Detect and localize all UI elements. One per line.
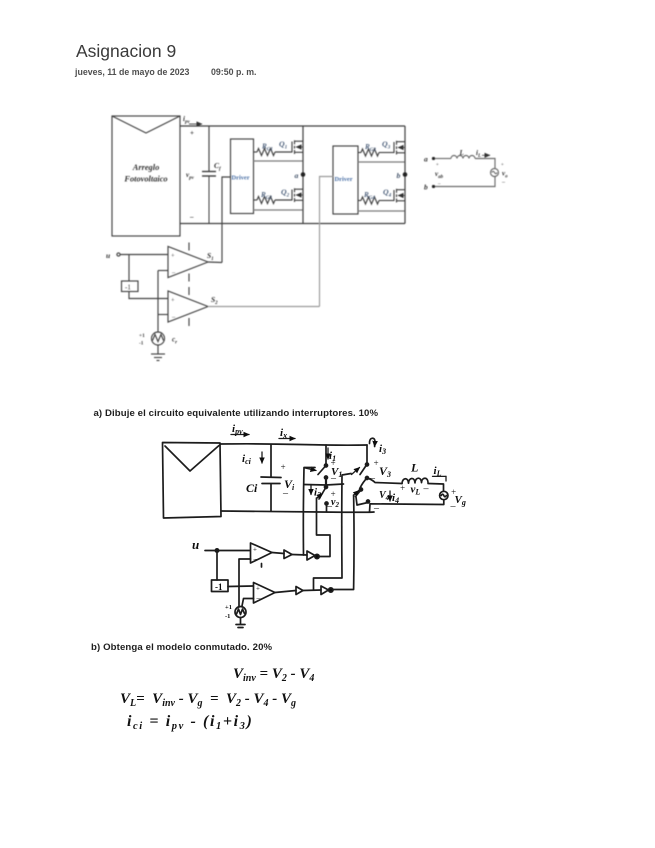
- carrier source (hand): [235, 607, 246, 618]
- node a (right mini circuit): [424, 155, 435, 164]
- svg-text:Fotovoltaico: Fotovoltaico: [123, 175, 167, 184]
- wire u to inverter: [128, 255, 130, 282]
- Vi label (hand): [280, 462, 295, 499]
- capacitor Cf: [202, 172, 216, 224]
- svg-text:Vinv = V2 - V4: Vinv = V2 - V4: [233, 666, 314, 684]
- transistor Q4: [383, 188, 405, 203]
- Vg label (hand): [450, 487, 466, 512]
- switch S1 leg (hand): [305, 445, 328, 479]
- svg-text:Vg: Vg: [455, 494, 466, 507]
- op-amp comparator A2: [168, 287, 208, 326]
- svg-text:+: +: [400, 483, 406, 493]
- capacitor Ci (hand): [246, 445, 281, 512]
- i1 label (hand): [329, 450, 342, 484]
- top rail: [180, 125, 405, 127]
- source vo: [491, 163, 509, 186]
- wire driver2-Q4 source return: [358, 210, 405, 212]
- svg-text:–: –: [326, 501, 333, 512]
- wire S2 output: [208, 306, 320, 308]
- svg-text:cr: cr: [172, 336, 177, 346]
- V4 i4 label (hand): [373, 490, 399, 514]
- svg-text:ici: ici: [242, 453, 252, 466]
- input u terminal: [106, 251, 168, 260]
- inductor L (hand): [402, 461, 428, 484]
- wire S3 mid to inductor (hand): [367, 478, 402, 484]
- leg1 vertical wire: [302, 126, 304, 224]
- inductor L: [451, 149, 475, 159]
- switch S4 (hand): [354, 478, 370, 505]
- svg-text:+: +: [256, 585, 260, 593]
- svg-text:L: L: [459, 149, 464, 157]
- date line: [75, 67, 189, 77]
- svg-text:vL: vL: [411, 484, 421, 497]
- i_pv label + arrow: [183, 115, 202, 125]
- svg-text:Q4: Q4: [383, 188, 392, 199]
- carrier labels (hand): [225, 604, 232, 620]
- svg-text:Q2: Q2: [281, 188, 290, 199]
- bottom rail: [180, 223, 405, 225]
- svg-text:b: b: [397, 171, 401, 180]
- wire S1 output: [208, 261, 222, 264]
- svg-text:i4: i4: [392, 492, 399, 505]
- svg-text:Arreglo: Arreglo: [132, 163, 160, 172]
- vL label (hand): [400, 483, 430, 497]
- transistor Q1: [279, 140, 303, 155]
- svg-text:vab: vab: [435, 170, 444, 180]
- switch S3 leg (hand): [352, 445, 369, 480]
- wire inductor to source: [475, 159, 495, 169]
- svg-text:+: +: [280, 462, 286, 472]
- svg-text:-1: -1: [125, 284, 131, 292]
- i4 arrow (hand): [389, 491, 391, 501]
- wire buffer3 to inverter buffer4 (hand): [303, 589, 321, 592]
- svg-text:–: –: [501, 180, 506, 186]
- svg-text:RG2: RG2: [260, 191, 272, 201]
- PV label: [123, 163, 167, 184]
- v_pv labels: [186, 129, 195, 221]
- svg-text:–: –: [256, 594, 262, 603]
- svg-text:-1: -1: [139, 341, 144, 347]
- svg-text:i3: i3: [379, 443, 386, 456]
- wire S1-S2 (hand): [325, 478, 327, 487]
- ground (hand): [236, 618, 245, 628]
- control wire comp1 to S1 (hand): [303, 468, 315, 556]
- svg-text:V4: V4: [379, 490, 390, 502]
- leg2 vertical wire: [404, 126, 406, 224]
- wire source to b: [435, 177, 495, 187]
- wire -1 to comparator2: [129, 292, 168, 299]
- svg-text:a: a: [424, 155, 428, 164]
- svg-text:u: u: [106, 251, 110, 260]
- svg-text:Driver: Driver: [232, 175, 250, 182]
- svg-text:iL: iL: [476, 149, 481, 159]
- svg-text:Ci: Ci: [246, 481, 258, 495]
- wire driver1-Q1 source return: [254, 160, 304, 162]
- svg-text:-1: -1: [225, 613, 230, 620]
- resistor RG1: [254, 143, 293, 156]
- wire comp2 minus to carrier (hand): [242, 599, 254, 607]
- V3 label (hand): [369, 458, 391, 484]
- svg-text:RG3: RG3: [364, 143, 376, 153]
- control wire comp1 inv to S2 (hand): [317, 498, 331, 557]
- svg-text:+: +: [501, 163, 504, 168]
- wire driver2-Q3 source return: [358, 161, 405, 163]
- svg-text:–: –: [423, 484, 430, 495]
- transistor Q2: [281, 188, 303, 203]
- source Vg (hand): [440, 491, 448, 499]
- svg-text:+: +: [171, 253, 175, 260]
- comparator A2 (hand): [254, 583, 276, 604]
- svg-text:vpv: vpv: [186, 171, 195, 181]
- svg-text:ici = ipv - (i1+i3): ici = ipv - (i1+i3): [127, 713, 253, 732]
- inverter -1 box: [122, 281, 139, 292]
- svg-text:a: a: [295, 171, 299, 180]
- wire S1 to driver1: [222, 177, 231, 263]
- svg-text:+1: +1: [139, 333, 145, 339]
- svg-text:+: +: [171, 297, 175, 304]
- driver U2 box: [333, 146, 358, 214]
- resistor RG3: [358, 143, 394, 156]
- wire driver1-Q2 source return: [254, 209, 304, 211]
- i_pv label (hand): [231, 423, 249, 436]
- wire S2 to driver2: [320, 177, 334, 307]
- svg-text:vo: vo: [502, 170, 508, 180]
- svg-text:Q3: Q3: [382, 140, 391, 151]
- inverter -1 box (hand): [212, 580, 229, 592]
- i2 arrow (hand): [310, 485, 312, 495]
- wire legA mid (hand): [304, 484, 344, 485]
- wire inductor to source (hand): [428, 484, 444, 492]
- svg-text:Cf: Cf: [214, 161, 222, 172]
- wire bottom rail (hand): [221, 511, 374, 512]
- transistor Q3: [382, 140, 405, 155]
- wire a to inductor: [435, 158, 451, 160]
- svg-text:+1: +1: [225, 604, 232, 611]
- PV array box: [112, 116, 180, 236]
- wire source return (hand): [370, 500, 444, 512]
- control wire comp2 inv to S4 (hand): [333, 495, 355, 590]
- svg-text:-1: -1: [215, 582, 223, 592]
- svg-text:–: –: [189, 213, 194, 221]
- svg-text:RG1: RG1: [261, 143, 273, 153]
- svg-text:+: +: [253, 546, 257, 554]
- v_ab label: [435, 163, 444, 180]
- svg-text:S2: S2: [211, 295, 218, 306]
- svg-text:–: –: [450, 501, 457, 512]
- wire top rail (hand): [220, 444, 367, 445]
- i3 hook + label (hand): [369, 438, 386, 456]
- PV array box (hand): [163, 443, 222, 519]
- node b: [397, 171, 408, 180]
- inverting buffer B2 (hand): [307, 551, 319, 560]
- wire buffer1 to inverter buffer (hand): [292, 554, 307, 557]
- ground: [151, 345, 165, 361]
- resistor RG4: [358, 191, 394, 204]
- i_x label (hand): [279, 427, 295, 440]
- svg-text:v2: v2: [331, 497, 339, 509]
- svg-text:+: +: [190, 129, 194, 137]
- switch S2 (hand): [317, 486, 329, 512]
- wire comp2 output (hand): [275, 591, 296, 593]
- wire comp1 minus to carrier (hand): [239, 559, 251, 607]
- op-amp comparator A1: [168, 243, 208, 282]
- wire carrier to comparators: [158, 271, 168, 333]
- wire comp1 output (hand): [272, 553, 284, 554]
- carrier source cr: [139, 332, 177, 347]
- i_ci label (hand): [242, 452, 262, 466]
- svg-text:Driver: Driver: [335, 176, 353, 183]
- svg-text:L: L: [410, 461, 418, 475]
- svg-text:ipv: ipv: [183, 115, 190, 125]
- wire u to comp1 (hand): [205, 549, 250, 552]
- node b (right mini circuit): [424, 182, 441, 192]
- resistor RG2: [254, 191, 293, 204]
- i1 arrow (hand): [327, 448, 329, 459]
- wire u to -1 box (hand): [216, 551, 218, 581]
- capacitor Cf wire: [208, 126, 210, 172]
- driver U1 box: [231, 139, 254, 214]
- comparator A1 (hand): [251, 543, 273, 567]
- title: [76, 41, 176, 62]
- svg-text:Q1: Q1: [279, 140, 288, 151]
- iL label (hand): [433, 465, 447, 481]
- i_L label + arrow: [476, 149, 490, 159]
- svg-text:VL= Vinv - Vg = V2 - V4 - V: VL= Vinv - Vg = V2 - V4 - Vg: [120, 691, 296, 709]
- svg-text:+: +: [436, 163, 439, 168]
- question b: [91, 642, 272, 653]
- inverting buffer B4 (hand): [321, 586, 333, 595]
- svg-text:u: u: [192, 537, 199, 552]
- svg-text:–: –: [437, 182, 441, 187]
- question a: [94, 408, 379, 419]
- wire -1 to comp2 (hand): [228, 585, 253, 588]
- control wire comp2 to S3 (hand): [314, 474, 352, 590]
- svg-text:i2: i2: [314, 487, 321, 500]
- svg-text:RG4: RG4: [363, 191, 375, 201]
- node a: [295, 171, 306, 180]
- svg-text:–: –: [282, 488, 289, 499]
- buffer B3 (hand): [296, 587, 303, 595]
- svg-text:b: b: [424, 183, 428, 192]
- svg-text:S1: S1: [207, 251, 214, 262]
- i2 label (hand): [314, 487, 339, 513]
- buffer B1 (hand): [284, 550, 292, 559]
- svg-text:–: –: [330, 473, 337, 484]
- svg-text:V3: V3: [379, 464, 391, 479]
- svg-text:–: –: [253, 554, 259, 563]
